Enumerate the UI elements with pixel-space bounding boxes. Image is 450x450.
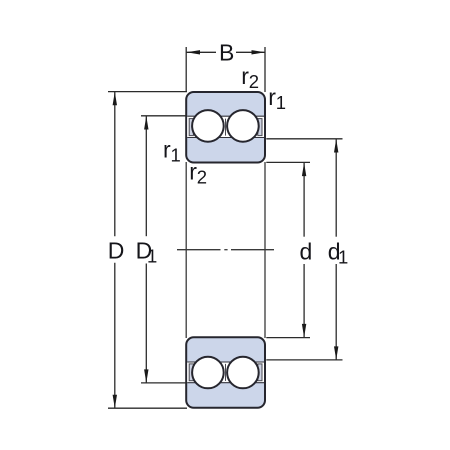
svg-text:2: 2 [197,167,207,188]
svg-text:1: 1 [171,145,181,166]
svg-text:D: D [108,238,125,264]
svg-text:1: 1 [147,246,157,267]
svg-text:d: d [300,238,313,264]
svg-text:2: 2 [249,71,259,92]
svg-text:1: 1 [276,92,286,113]
svg-text:B: B [219,39,234,65]
svg-text:1: 1 [338,247,348,268]
